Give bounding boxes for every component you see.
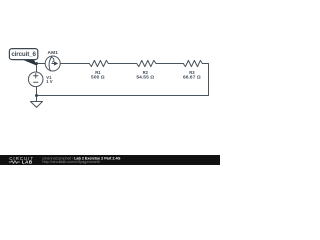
svg-text:R2: R2 [143, 70, 149, 75]
svg-text:54.55 Ω: 54.55 Ω [136, 75, 154, 81]
svg-text:66.67 Ω: 66.67 Ω [183, 75, 201, 81]
svg-text:http://circuitlab.com/c/9pqgzv: http://circuitlab.com/c/9pqgzvmse5r [43, 160, 102, 164]
svg-text:R1: R1 [95, 70, 101, 75]
svg-text:500 Ω: 500 Ω [91, 75, 105, 81]
svg-text:LAB: LAB [22, 160, 33, 165]
svg-text:circuit_6: circuit_6 [11, 51, 36, 58]
svg-text:1 V: 1 V [46, 79, 52, 84]
svg-text:AM1: AM1 [48, 50, 59, 56]
svg-text:R3: R3 [189, 70, 195, 75]
